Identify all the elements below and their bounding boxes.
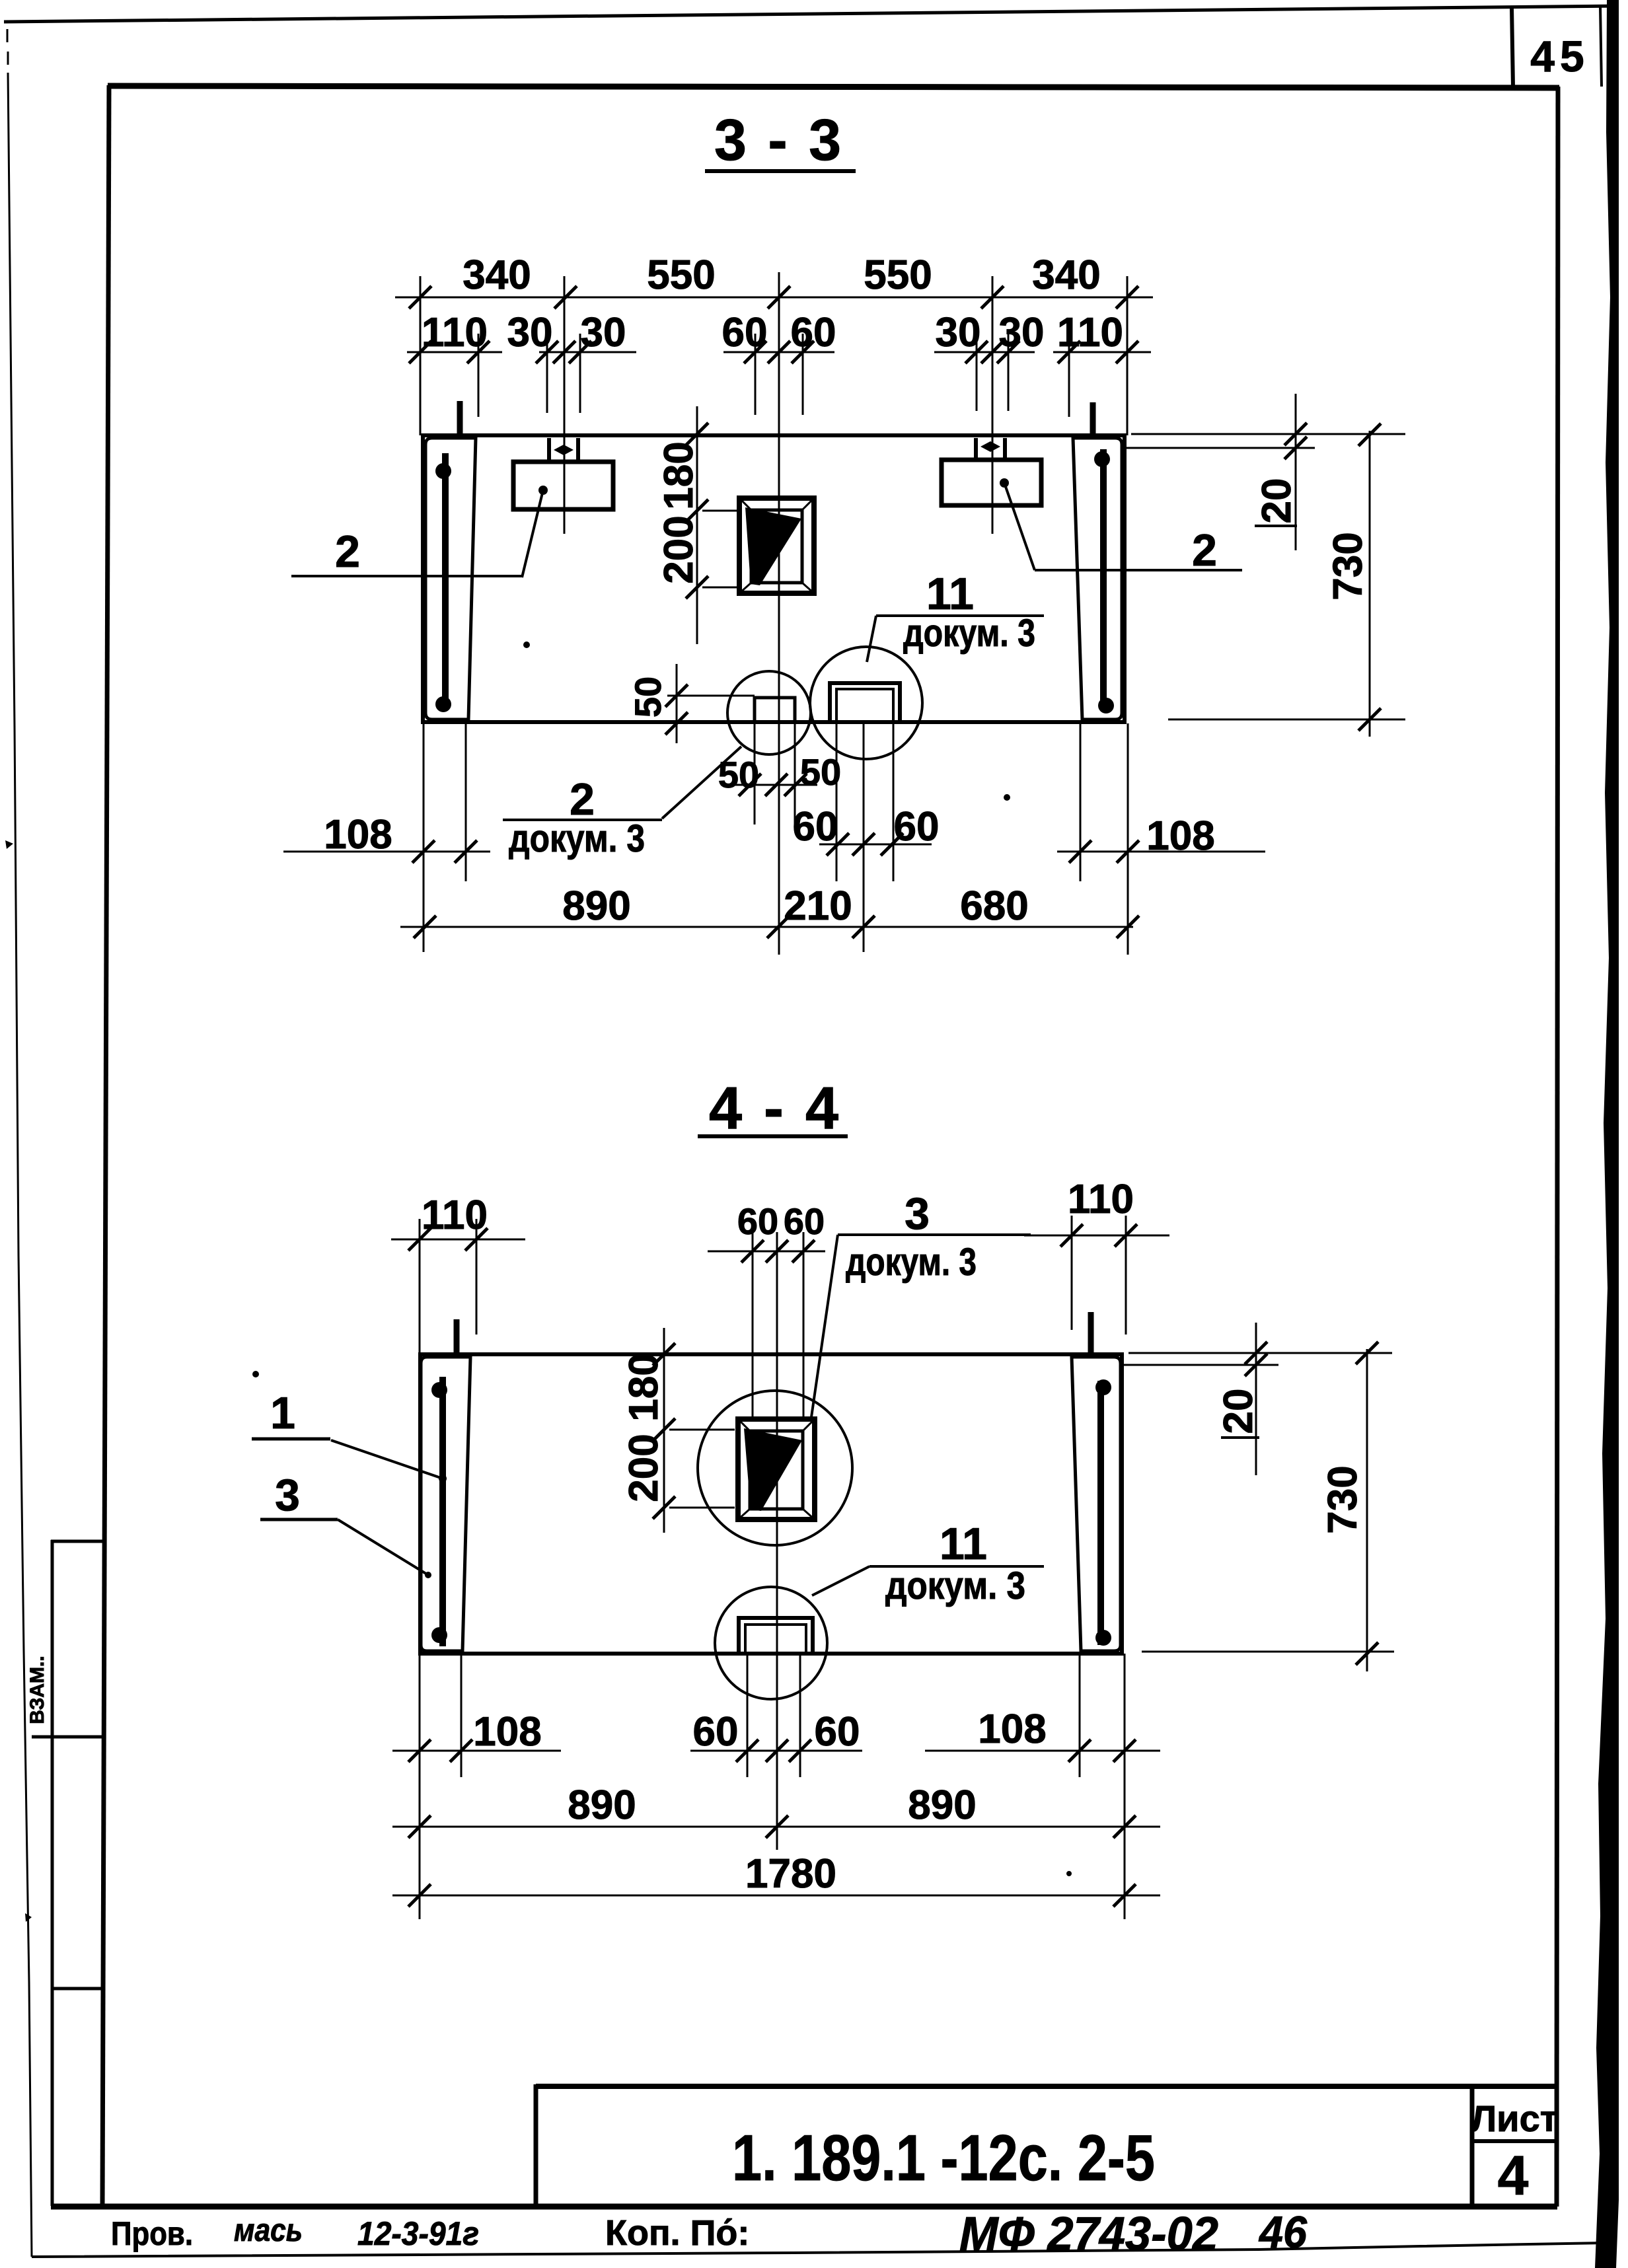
central hole 4-4 inner [750,1431,803,1509]
dimension 730 vertical 4-4 [1366,1349,1368,1671]
svg-text:730: 730 [1320,1465,1366,1533]
central hole corner bevels [739,498,751,510]
svg-text:110: 110 [422,1192,488,1238]
bottom extension lines 3-3 [423,723,425,952]
svg-text:200: 200 [621,1434,667,1502]
extension lines above panel 4-4 [419,1219,421,1356]
left anchor plate T-head [547,438,551,462]
svg-text:Коп. По́:: Коп. По́: [605,2213,749,2253]
drawing frame right edge [1557,87,1558,2207]
svg-text:50: 50 [800,751,841,793]
panel 3-3 left rebar [442,453,449,699]
extension lines above panel 3-3 [420,276,422,435]
svg-text:11: 11 [940,1519,987,1569]
svg-text:1780: 1780 [745,1851,836,1897]
left anchor plate [513,462,613,509]
bottom right extension line 4-4 [1142,1651,1394,1653]
dimension 108 left [283,851,490,853]
speck on left border [25,1913,32,1922]
svg-text:докум. 3: докум. 3 [903,612,1035,655]
dimension 730 vertical [1369,431,1371,737]
svg-text:340: 340 [462,252,531,298]
drawing frame left edge [102,85,109,2207]
svg-text:110: 110 [1057,310,1123,355]
panel 3-3 left anchor rod above top [457,401,463,436]
dimension row 110/30/30/60/60/30/30/110 segments [407,351,502,353]
svg-text:3: 3 [275,1470,300,1520]
drawing frame bottom edge [51,2204,1557,2210]
svg-text:180: 180 [656,441,702,509]
section title 4-4 underline [698,1134,848,1138]
svg-text:2: 2 [335,527,360,577]
sheet number box right edge [1600,7,1602,87]
paper specks 4-4 [252,1371,259,1377]
dimension 200/180 vertical [696,406,698,644]
panel 3-3 right rebar [1100,449,1107,700]
svg-text:550: 550 [647,252,715,298]
svg-text:30: 30 [581,310,626,355]
svg-text:60: 60 [737,1200,778,1242]
panel 4-4 outline [420,1354,1122,1654]
panel 4-4 left anchor rod above top [454,1319,460,1356]
bottom right extension line [1168,719,1405,721]
svg-text:550: 550 [864,252,932,298]
panel 4-4 left rebar [439,1377,446,1646]
dimension row 340/550/550/340 line [395,297,1153,299]
svg-text:50: 50 [718,754,759,795]
svg-text:30: 30 [999,310,1045,355]
svg-text:110: 110 [1068,1177,1134,1222]
dimension 60/60 top [708,1251,825,1253]
title block top edge [536,2084,1557,2089]
detail circle small notch [727,671,811,754]
dimension 110 right top [1024,1235,1169,1237]
outer border bottom [32,2243,1603,2257]
central hole 4-4 outer [738,1419,815,1519]
dimension 110 left top [391,1239,525,1241]
svg-text:60: 60 [722,310,768,355]
dimension 50 vertical at notch [676,664,678,743]
title block list divider vertical [1470,2086,1475,2207]
big groove outer [830,683,900,721]
svg-text:890: 890 [908,1782,976,1828]
small notch [755,698,795,721]
section title 3-3 underline [705,169,856,173]
svg-text:180: 180 [621,1353,667,1421]
svg-text:890: 890 [568,1782,636,1828]
right extension lines 20/730 4-4 [1128,1352,1392,1354]
svg-text:60: 60 [793,804,838,850]
svg-text:108: 108 [978,1706,1046,1752]
outer border left (dashed top part) [7,29,9,42]
dimension row 1780 4-4 [392,1895,1160,1897]
dimension 60/60 [819,844,932,846]
panel 3-3 right end block [1073,438,1122,719]
svg-text:Пров.: Пров. [111,2215,193,2252]
svg-text:ВЗАМ..: ВЗАМ.. [26,1656,48,1724]
central hole 4-4 corner bevels [738,1419,750,1431]
left margin column left edge [51,1540,54,2206]
central hole outer [739,498,814,593]
outer border top [4,6,1617,22]
svg-text:60: 60 [894,804,940,850]
svg-text:60: 60 [815,1709,860,1755]
svg-text:20: 20 [1254,478,1300,524]
dimension 200/180 vertical 4-4 [663,1328,665,1533]
title block left edge [534,2084,538,2207]
right anchor plate [942,460,1041,505]
panel 4-4 left end block [421,1357,470,1651]
panel 4-4 right anchor rod above top [1088,1312,1094,1356]
svg-text:докум. 3: докум. 3 [846,1241,977,1284]
svg-text:2: 2 [1192,525,1217,575]
left margin column divider 2 [52,1987,105,1991]
svg-text:46: 46 [1258,2207,1308,2257]
dimension row 890/890 4-4 [392,1826,1160,1828]
svg-text:45: 45 [1530,32,1589,81]
svg-text:60: 60 [693,1709,739,1755]
detail circle notch 4-4 [715,1587,827,1699]
panel 4-4 right end block [1072,1357,1121,1651]
panel 3-3 left end block [425,438,476,719]
svg-text:50: 50 [627,677,669,717]
svg-text:МФ 2743-02: МФ 2743-02 [959,2208,1218,2261]
central hole 4-4 shadow wedge [744,1428,802,1511]
paper specks [523,641,530,648]
panel 3-3 right anchor rod above top [1090,402,1096,436]
dimension row 108/60/60/108 4-4 [392,1750,561,1752]
svg-text:докум. 3: докум. 3 [509,817,645,860]
svg-text:210: 210 [784,883,852,929]
title block list divider horizontal [1472,2139,1557,2143]
bottom notch 4-4 outer [739,1618,813,1652]
svg-text:1: 1 [270,1388,295,1438]
svg-text:60: 60 [791,310,836,355]
svg-text:730: 730 [1325,532,1371,600]
detail circle big groove [810,647,922,759]
drawing frame top edge [108,86,1559,88]
central hole shadow wedge [745,507,801,585]
detail circle hole 4-4 [698,1391,852,1545]
svg-text:1. 189.1 -12с. 2-5: 1. 189.1 -12с. 2-5 [732,2121,1155,2194]
svg-text:108: 108 [1146,813,1214,859]
svg-text:200: 200 [656,515,702,583]
dimension 108 right [1057,851,1265,853]
bottom extension lines 4-4 [419,1654,421,1919]
svg-text:Лист: Лист [1471,2098,1558,2139]
bottom notch 4-4 inner [745,1625,806,1652]
svg-text:3 - 3: 3 - 3 [714,107,844,172]
svg-text:108: 108 [473,1709,541,1755]
big groove inner [836,689,893,721]
panel 4-4 right rebar [1097,1381,1104,1645]
svg-text:20: 20 [1216,1389,1261,1434]
svg-text:3: 3 [905,1189,930,1239]
svg-text:докум. 3: докум. 3 [885,1564,1025,1607]
central hole inner [751,510,802,583]
right anchor plate T-head [974,438,978,460]
panel 3-3 outline [423,435,1125,722]
svg-text:30: 30 [936,310,981,355]
svg-text:12-3-91г: 12-3-91г [357,2215,479,2252]
left margin column top cap [51,1540,106,1543]
right extension lines 20/730 [1131,433,1405,435]
left margin column divider 1 [32,1736,106,1739]
right scan edge band [1595,0,1619,2268]
sheet number box divider [1512,7,1513,87]
svg-text:680: 680 [960,883,1028,929]
svg-text:340: 340 [1032,252,1100,298]
svg-text:4 - 4: 4 - 4 [709,1076,841,1142]
dimension 50/50 [730,784,817,786]
svg-text:мась: мась [234,2213,303,2248]
svg-text:890: 890 [562,883,630,929]
svg-text:4: 4 [1498,2144,1529,2207]
dimension 890/210/680 [400,926,1133,928]
svg-text:30: 30 [507,310,553,355]
svg-text:108: 108 [324,812,392,858]
